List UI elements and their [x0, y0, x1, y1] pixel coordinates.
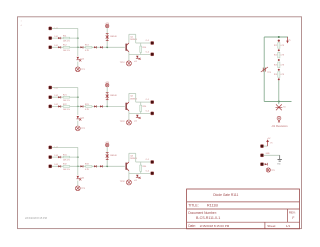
resistor R24 vertical [140, 105, 142, 111]
svg-text:TP5: TP5 [271, 170, 274, 172]
svg-text:1N4148: 1N4148 [110, 155, 117, 157]
diode D27 [136, 115, 138, 118]
resistor R21 [63, 96, 69, 98]
chain diode DR0 [278, 40, 280, 42]
supply +12V circle [106, 24, 109, 27]
transistor Q2 collector stroke [127, 102, 129, 104]
resistor RN4 [278, 72, 280, 78]
chain joint 4 [278, 78, 280, 80]
svg-text:F: F [292, 216, 294, 220]
wire R4 top [140, 162, 142, 165]
transistor Q3 base bar [126, 163, 127, 170]
svg-text:2-01: 2-01 [54, 36, 58, 38]
connector pad J3-3 [49, 165, 52, 168]
connector pad J1-1 [49, 27, 52, 30]
svg-text:R24: R24 [274, 74, 277, 76]
svg-text:TP4: TP4 [267, 72, 270, 74]
svg-text:10K 1%: 10K 1% [63, 109, 70, 111]
resistor RN2 [278, 52, 280, 58]
junction row2/bus [77, 156, 79, 158]
wire P1 [264, 145, 268, 147]
connector pad J2-2 [49, 96, 52, 99]
connector pad P1 [261, 145, 264, 148]
supply arrow P1 [267, 141, 269, 146]
svg-text:+12V: +12V [105, 142, 110, 144]
svg-text:2N3904: 2N3904 [130, 39, 138, 41]
wire collector up [128, 93, 130, 102]
resistor R23 [86, 106, 92, 108]
diode D15 vertical [77, 57, 79, 60]
diode D21 [58, 96, 60, 98]
wire pullup [106, 28, 108, 48]
junction row3/bus [77, 165, 79, 167]
svg-text:2/15/2018 8:15:00 PM: 2/15/2018 8:15:00 PM [200, 224, 230, 228]
wire to out pad 2 [129, 113, 151, 115]
supply symbol right [287, 37, 289, 42]
diode D32 [58, 165, 60, 167]
svg-text:B-CS-R111-0-1: B-CS-R111-0-1 [196, 216, 220, 220]
diode D27 marker [139, 117, 141, 119]
wire pad1 to bus [52, 87, 78, 89]
junction bottom [278, 101, 280, 103]
diode D25 vertical [77, 116, 79, 119]
wire R4 bottom [140, 52, 142, 54]
junction row2/bus [77, 96, 79, 98]
junction top [278, 36, 280, 38]
junction row3/bus [77, 106, 79, 108]
resistor R32 [63, 166, 69, 168]
wire emitter to TP [128, 114, 130, 120]
output pad O2-2 [151, 112, 154, 115]
wire collector top [129, 92, 136, 94]
wire R4 top [140, 43, 142, 46]
output pad O1-2 [151, 53, 154, 56]
diode D17 [136, 56, 138, 59]
svg-text:X1: X1 [283, 107, 285, 109]
wire emitter to TP [128, 55, 130, 61]
wire row2 [52, 96, 78, 98]
svg-text:REV:: REV: [289, 210, 296, 214]
wire R4 top [140, 102, 142, 105]
svg-text:2-02: 2-02 [54, 95, 58, 97]
transistor Q1 emitter stroke [127, 50, 129, 52]
wire to out pad 1 [136, 161, 151, 163]
diode D14 [94, 46, 96, 48]
wire collector down to out1 [135, 153, 137, 162]
resistor RN3 [278, 62, 280, 68]
svg-text:R23: R23 [274, 64, 277, 66]
svg-text:R111B: R111B [207, 203, 219, 207]
svg-text:R22: R22 [274, 55, 277, 57]
wire row2 [52, 37, 78, 39]
svg-text:Document Number:: Document Number: [188, 211, 217, 215]
svg-text:V1: V1 [270, 142, 272, 144]
diode DP3 [264, 163, 265, 165]
diode D35 vertical [77, 176, 79, 179]
svg-text:10K 1%: 10K 1% [63, 100, 70, 102]
test point TP22 [126, 120, 131, 125]
transistor Q2 emitter stroke [127, 109, 129, 111]
diode D18 [100, 46, 102, 48]
title block sheet divider [264, 222, 266, 229]
title block line 3 [187, 221, 300, 223]
transistor Q1 base bar [126, 44, 127, 51]
output pad O3-2 [151, 172, 154, 175]
diode D24 [94, 105, 96, 107]
connector pad J1-3 [49, 46, 52, 49]
svg-text:R21: R21 [274, 45, 277, 47]
output pad O2-1 [151, 101, 154, 104]
transistor Q3 collector stroke [127, 162, 129, 164]
wire pullup [106, 147, 108, 167]
transistor Q3 emitter stroke [127, 169, 129, 171]
junction base node [106, 106, 108, 108]
wire collector down to out1 [135, 34, 137, 43]
wire collector top [129, 152, 136, 154]
resistor R34 vertical [140, 165, 142, 171]
wire stub below [278, 102, 280, 105]
wire to test point [77, 181, 79, 186]
vertical bus wire [77, 28, 79, 56]
connector pad J3-1 [49, 146, 52, 149]
wire to out pad 2 [129, 54, 151, 56]
diode D13 [80, 46, 82, 48]
svg-text:4.7K: 4.7K [85, 169, 90, 171]
svg-text:10K 1%: 10K 1% [63, 160, 70, 162]
wire chain to bottom [278, 80, 280, 101]
wire pad1 to bus [52, 27, 78, 29]
output pad O1-1 [151, 42, 154, 45]
title block outline [187, 189, 300, 229]
svg-text:3-02: 3-02 [54, 104, 58, 106]
test point TP12 [126, 61, 131, 66]
diode D37 marker [139, 177, 141, 179]
test point TPR marker [278, 120, 280, 122]
wire row3 [52, 105, 125, 107]
diode D35 marker [79, 178, 81, 180]
wire to test point [77, 62, 79, 67]
resistor R33 [86, 166, 92, 168]
test point TPR [277, 116, 281, 120]
diode D12 [58, 46, 60, 48]
svg-text:10K 1%: 10K 1% [63, 169, 70, 171]
wire to out pad 1 [136, 42, 151, 44]
wire collector top [129, 33, 136, 35]
transistor Q2 base bar [126, 103, 127, 110]
resistor RN1 [278, 43, 280, 49]
connector pad J2-3 [49, 105, 52, 108]
svg-text:2N3904: 2N3904 [130, 98, 138, 100]
wire emitter to TP [128, 174, 130, 180]
svg-text:1N4148: 1N4148 [110, 95, 117, 97]
svg-text:1/1: 1/1 [286, 224, 291, 228]
supply +12V circle [106, 143, 109, 146]
wire to out pad 2 [129, 173, 151, 175]
resistor R11 [63, 37, 69, 39]
wire pad1 to bus [52, 146, 78, 148]
junction base node [106, 165, 108, 167]
diode D25 marker [79, 118, 81, 120]
connector pad P3 [261, 163, 264, 166]
svg-text:1N4148: 1N4148 [110, 36, 117, 38]
svg-text:3-03: 3-03 [54, 164, 58, 166]
vertical bus wire [77, 88, 79, 116]
svg-text:2/15/2018 8:15 PM: 2/15/2018 8:15 PM [25, 216, 47, 220]
wire collector down to out1 [135, 93, 137, 102]
wire collector up [128, 153, 130, 162]
svg-text:2N3904: 2N3904 [130, 158, 138, 160]
connector pad J3-2 [49, 156, 52, 159]
wire row3 [52, 46, 125, 48]
diode D28 [100, 105, 102, 107]
svg-text:4.7K: 4.7K [85, 109, 90, 111]
title block REV divider [286, 209, 288, 222]
wire row2 [52, 156, 78, 158]
wire emitter down [128, 52, 130, 55]
chain joint 1 [278, 49, 280, 51]
output pad O3-1 [151, 161, 154, 164]
svg-text:4.7K: 4.7K [85, 50, 90, 52]
diode D23 [80, 105, 82, 107]
net wire loop left vertical [263, 37, 265, 102]
svg-text:Sheet:: Sheet: [267, 224, 276, 228]
wire pullup [106, 87, 108, 107]
wire row3 [52, 165, 125, 167]
connector pad J2-1 [49, 86, 52, 89]
pullup diode D16 [106, 33, 109, 35]
svg-text:+12V: +12V [105, 23, 110, 25]
net wire loop top [264, 36, 288, 38]
resistor R13 [86, 46, 92, 48]
svg-text:2-03: 2-03 [54, 155, 58, 157]
resistor R14 vertical [140, 46, 142, 52]
capacitor CT1 on left net [262, 68, 264, 72]
junction row3/bus [77, 46, 79, 48]
transistor Q1 collector stroke [127, 43, 129, 45]
diode D34 [94, 165, 96, 167]
diode D33 [80, 165, 82, 167]
resistor R31 [63, 156, 69, 158]
diode D15 marker [79, 59, 81, 61]
test point TP31 [75, 186, 80, 191]
svg-text:3-01: 3-01 [54, 45, 58, 47]
chain joint 3 [278, 69, 280, 71]
svg-text:10K 1%: 10K 1% [63, 41, 70, 43]
svg-text:Diode Gate R111: Diode Gate R111 [213, 193, 238, 197]
component X1 cross [276, 104, 282, 110]
wire R4 bottom [140, 171, 142, 173]
test point TPP3 [266, 168, 270, 172]
vertical bus wire [77, 147, 79, 175]
schematic frame border [18, 17, 302, 229]
wire to test point [77, 121, 79, 126]
svg-text:-01 Resistors: -01 Resistors [271, 124, 288, 128]
diode D38 [100, 165, 102, 167]
diode D17 marker [139, 58, 141, 60]
pullup diode D26 [106, 92, 109, 94]
ground symbol [279, 155, 281, 159]
diode D37 [136, 175, 138, 178]
wire to out pad 1 [136, 101, 151, 103]
diode D22 [58, 105, 60, 107]
wire collector up [128, 34, 130, 43]
junction row2/bus [77, 37, 79, 39]
connector pad J1-2 [49, 37, 52, 40]
diode D11 [58, 37, 60, 39]
svg-text:GND: GND [266, 153, 271, 155]
test point TP32 [126, 180, 131, 185]
wire emitter down [128, 111, 130, 114]
pullup diode D36 [106, 152, 109, 154]
test point TP11 [75, 67, 80, 72]
wire emitter down [128, 171, 130, 174]
title block line 1 [187, 201, 300, 203]
test point TP21 [75, 126, 80, 131]
svg-text:10K 1%: 10K 1% [63, 50, 70, 52]
diode D31 [58, 156, 60, 158]
svg-text:+12V: +12V [105, 82, 110, 84]
net wire loop bottom [264, 101, 291, 103]
resistor R22 [63, 106, 69, 108]
chain joint 2 [278, 59, 280, 61]
svg-text:TITLE:: TITLE: [188, 203, 199, 207]
title block line 2 [187, 208, 300, 210]
wire P2 to ground [264, 154, 280, 156]
wire R4 bottom [140, 111, 142, 113]
junction base node [106, 46, 108, 48]
svg-text:Date:: Date: [188, 224, 196, 228]
connector pad P2 [261, 154, 264, 157]
supply +12V circle [106, 83, 109, 86]
resistor R12 [63, 46, 69, 48]
